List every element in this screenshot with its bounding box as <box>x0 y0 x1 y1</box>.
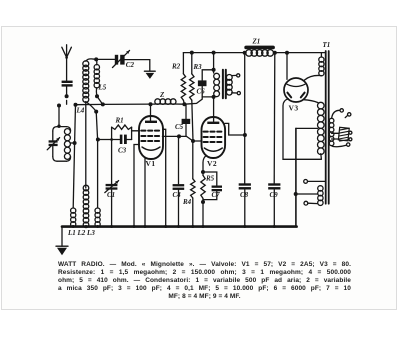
svg-text:C2: C2 <box>126 61 135 69</box>
wire: Z1 right drop to C9 <box>273 53 276 184</box>
coil L5 <box>94 65 99 70</box>
tube V3 rectifier <box>284 78 308 102</box>
svg-text:C6: C6 <box>197 88 206 96</box>
svg-text:C1: C1 <box>107 191 115 199</box>
wire: winding4 to block <box>332 133 339 139</box>
wire: V2 anode bracket <box>225 123 245 135</box>
wire: rail to C6 box <box>213 53 215 70</box>
tube V1 <box>139 116 163 159</box>
wire: mains bottom lead <box>332 145 347 147</box>
wire: V1 bottom <box>144 157 146 225</box>
choke Z <box>155 99 161 105</box>
capacitor C6 box <box>202 70 213 97</box>
node L4/L5 top junction <box>94 57 98 61</box>
svg-text:C4: C4 <box>173 191 182 199</box>
capacitor C3 <box>120 135 123 144</box>
svg-text:V3: V3 <box>289 104 299 113</box>
ground (antenna circuit) <box>144 70 155 72</box>
terminal output bottom <box>304 201 308 205</box>
terminal mains plug top <box>340 109 343 112</box>
svg-text:R2: R2 <box>171 63 181 71</box>
node main HT wire A <box>74 103 78 107</box>
svg-text:V2: V2 <box>207 159 217 168</box>
transformer T1 winding 2 (filament) <box>318 102 325 109</box>
transformer T1 winding 4 (mains primary) <box>329 118 334 123</box>
wire: mains top lead <box>332 110 340 118</box>
svg-text:L1 L2 L3: L1 L2 L3 <box>67 229 95 237</box>
antenna <box>62 45 72 58</box>
wire: V1 output bracket <box>163 129 166 226</box>
wire: L4 tap curve <box>86 102 96 112</box>
wire: C2 to ground <box>125 60 150 71</box>
terminal IF bottom <box>232 92 237 94</box>
svg-text:L5: L5 <box>98 84 107 92</box>
resistor R3 <box>191 53 193 74</box>
svg-text:R4: R4 <box>182 198 192 206</box>
IF transformer secondary winding <box>226 75 232 81</box>
capacitor C9 <box>268 183 280 185</box>
capacitor antenna series <box>62 81 73 83</box>
svg-text:C9: C9 <box>270 191 279 199</box>
capacitor C7 <box>203 172 217 185</box>
terminal IF top <box>232 74 237 76</box>
wire: tank top <box>58 106 60 127</box>
capacitor C4 <box>178 136 180 183</box>
wire B: grid line y=139.5 <box>98 139 132 141</box>
svg-text:V1: V1 <box>146 159 156 168</box>
coil tank secondary <box>64 129 70 135</box>
wire: Z1 left drop to C8 <box>244 53 246 184</box>
wire: top row to C2 <box>96 58 114 60</box>
tuned circuit loop <box>53 127 67 162</box>
tube V2 <box>202 117 226 158</box>
capacitor C5 <box>185 104 187 119</box>
svg-text:C5: C5 <box>175 123 184 131</box>
ground bus <box>62 225 297 228</box>
wire: L4 tap down to wire B and L3 <box>96 112 97 208</box>
resistor R4 <box>192 141 194 179</box>
capacitor C2 variable mica <box>115 55 118 65</box>
capacitor C1 variable (padder) <box>111 140 113 184</box>
choke Z1 <box>244 46 275 50</box>
IF transformer primary winding <box>213 70 215 73</box>
wire: grid to V1 <box>132 130 140 132</box>
wire: V3 cathode return <box>283 99 321 160</box>
wire: L5 bottom <box>95 88 98 96</box>
svg-text:C7: C7 <box>212 191 221 199</box>
wire: V2 plate riser <box>213 97 215 122</box>
IF transformer core <box>223 70 226 99</box>
wire: Z to C5 node <box>155 103 184 105</box>
svg-text:C8: C8 <box>240 191 249 199</box>
wire: antenna lead-in <box>66 58 68 81</box>
capacitor C6 <box>198 80 207 86</box>
svg-text:T1: T1 <box>323 41 331 49</box>
transformer T1 core <box>326 51 329 204</box>
terminal output top <box>304 180 308 184</box>
wire: V3 to winding2 top <box>304 100 318 103</box>
node antenna plug gap <box>66 100 68 104</box>
terminal block right <box>349 131 352 134</box>
wire: to C6 box <box>184 97 202 104</box>
coil L1 <box>71 208 76 213</box>
svg-text:L4: L4 <box>76 107 85 115</box>
wire: V1 to C4 and V2 grid <box>162 136 201 141</box>
coil L4 <box>83 61 89 67</box>
wire: V1 cathode left <box>134 145 139 226</box>
ground (bus) <box>61 227 63 247</box>
wire: rail x=75 down to tank and L1 <box>73 105 75 208</box>
coil L2 <box>83 185 89 191</box>
wire: B+ tap to filter <box>296 127 318 129</box>
node C6 top <box>212 68 216 72</box>
lamp/plug block hatched <box>338 127 349 142</box>
wire: L4 bottom to L2 <box>85 102 87 188</box>
transformer T1 winding 1 (HV) <box>320 53 322 57</box>
svg-text:R5: R5 <box>205 175 215 183</box>
resistor R5 <box>201 175 205 198</box>
wire: V2 cathode <box>203 155 207 172</box>
transformer T1 winding 3 <box>318 186 323 191</box>
svg-text:C3: C3 <box>118 147 127 155</box>
capacitor C1 tuning gang (tank) <box>49 140 58 142</box>
wire: plate row y=104 <box>76 103 156 106</box>
svg-text:R1: R1 <box>115 117 124 125</box>
svg-text:R3: R3 <box>193 63 203 71</box>
wire: V1 plate riser <box>150 104 152 121</box>
svg-text:Z: Z <box>159 91 165 99</box>
capacitor C8 <box>239 183 251 185</box>
coil L3 <box>95 208 100 213</box>
svg-text:Z1: Z1 <box>252 38 261 46</box>
wire: winding3 mid tap <box>296 193 318 195</box>
resistor R2 <box>182 53 184 74</box>
wire: HT rail top y=52.6 <box>183 52 325 54</box>
resistor R1 <box>112 127 132 139</box>
wire: rail to V3 plate <box>286 53 288 80</box>
